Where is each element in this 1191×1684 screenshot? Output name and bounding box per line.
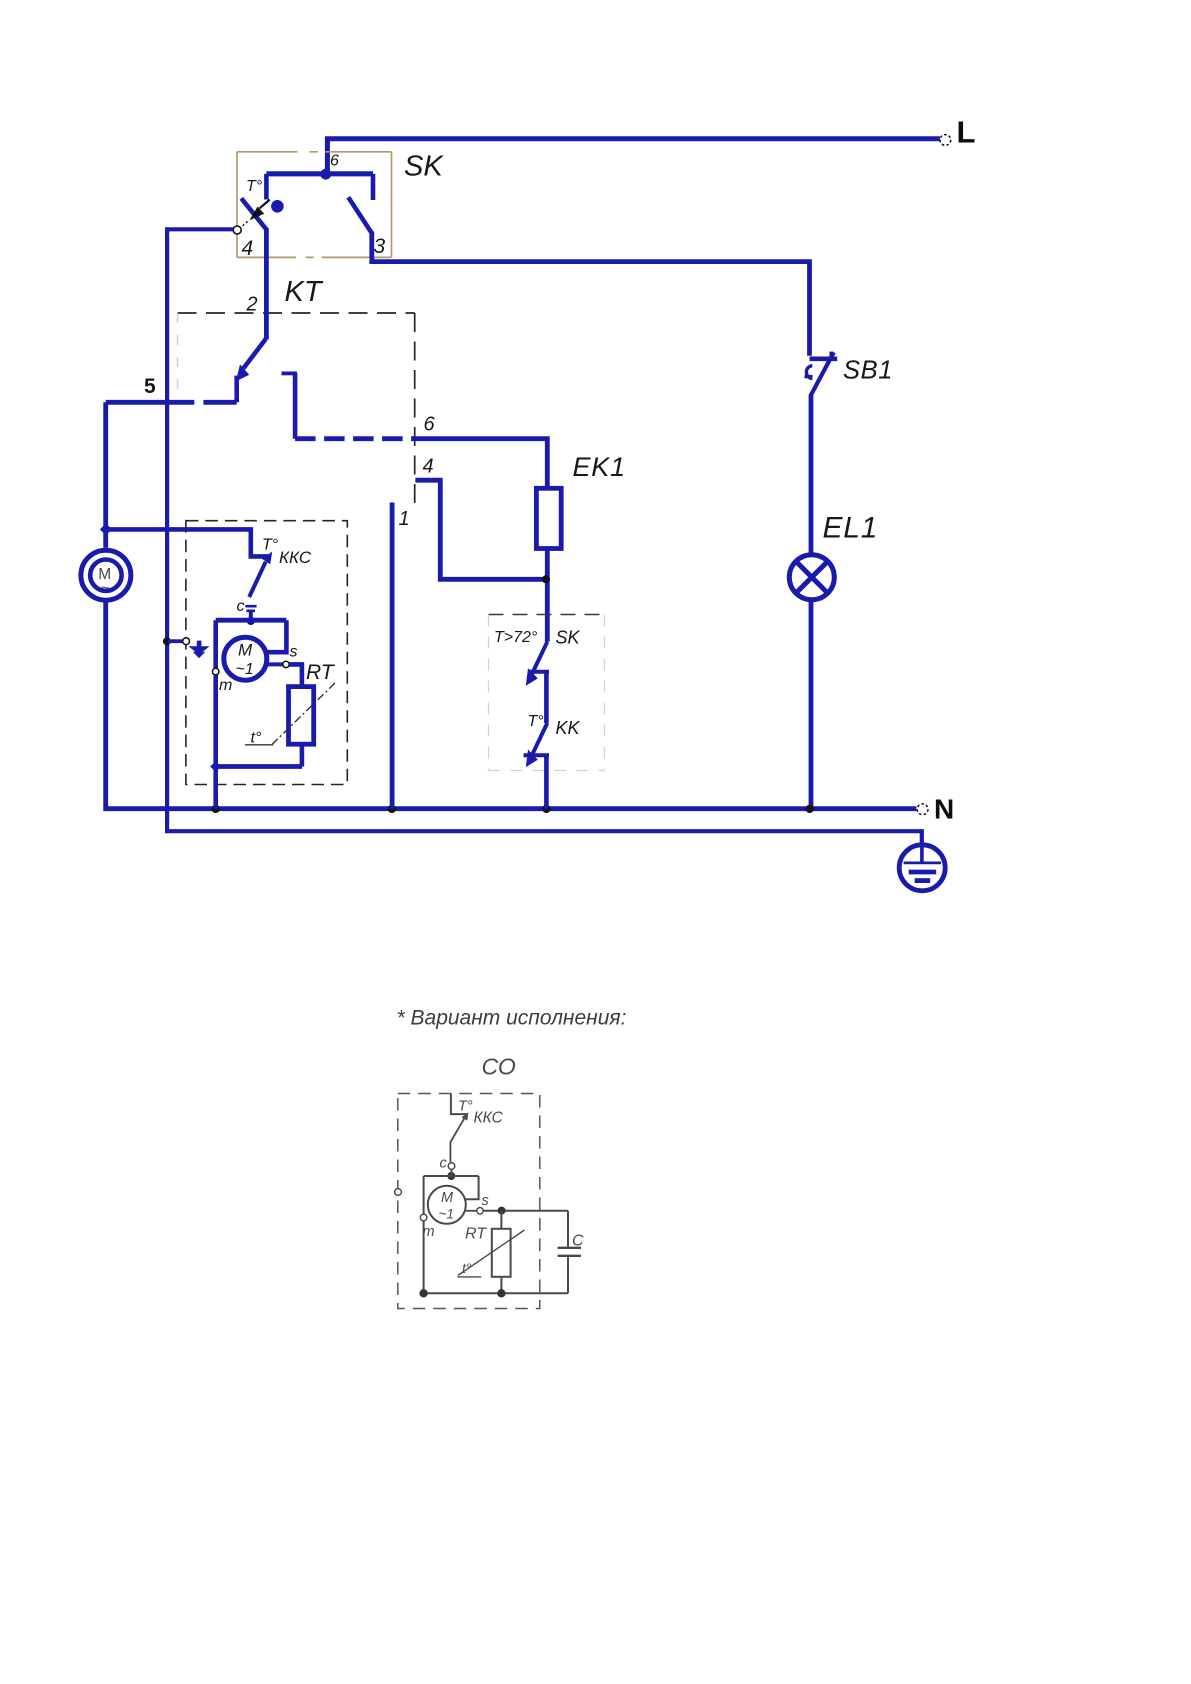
wire rail to N	[213, 767, 218, 809]
contact c circle (CO)	[448, 1163, 455, 1170]
svg-text:T°: T°	[528, 713, 545, 730]
junction c	[247, 617, 255, 625]
pin 4 terminal circle of SK	[233, 226, 241, 234]
wire s to RT	[289, 664, 302, 686]
SK left fixed contact T deg	[264, 174, 269, 200]
junction bottom RT (CO)	[497, 1289, 505, 1297]
motor M ~1	[224, 637, 267, 680]
contact c ticks	[245, 606, 256, 611]
wire 6 dashed	[295, 436, 416, 441]
contact s circle	[283, 661, 289, 667]
junction dots on N line	[212, 805, 814, 813]
svg-text:SK: SK	[404, 151, 444, 183]
svg-text:ККС: ККС	[279, 548, 312, 567]
wire to KKC contact	[106, 529, 270, 556]
wire EL1 to N line	[809, 600, 814, 809]
terminal L	[940, 115, 975, 150]
capacitor C (CO)	[558, 1211, 581, 1294]
SK contact dot	[271, 200, 284, 213]
KKC contact blade with arrow	[249, 552, 272, 597]
KKC wire top (CO)	[451, 1094, 467, 1115]
motor unit dashed box	[186, 521, 347, 785]
wire L top line	[327, 139, 940, 174]
svg-text:5: 5	[144, 375, 156, 398]
svg-text:EK1: EK1	[573, 452, 626, 482]
KT contact blade	[236, 339, 266, 382]
junction bottom rail	[210, 761, 221, 772]
svg-text:s: s	[290, 644, 298, 661]
variant CO dashed box	[398, 1094, 540, 1309]
defrost unit dashed box	[489, 615, 605, 771]
pin circle on CO box	[395, 1189, 402, 1196]
left rail lower part	[213, 675, 218, 767]
left rail (CO)	[423, 1176, 425, 1214]
junction EK1 bottom	[542, 575, 550, 583]
wire s to capacitor (CO)	[483, 1210, 568, 1212]
wire SK pin3 to SB1	[372, 232, 810, 356]
wire 6 to EK1	[414, 439, 547, 489]
svg-text:1: 1	[399, 508, 410, 530]
wire SK pin4 down to KT pin2	[264, 229, 269, 340]
resistor RT (CO)	[492, 1229, 511, 1277]
thermostat actuator arrow (black)	[240, 200, 270, 229]
thermistor slash	[272, 682, 337, 745]
svg-text:* Вариант исполнения:: * Вариант исполнения:	[397, 1007, 627, 1030]
svg-text:c: c	[237, 598, 245, 615]
bottom rail (CO)	[424, 1292, 568, 1294]
svg-text:SK: SK	[556, 628, 581, 648]
svg-text:4: 4	[423, 456, 434, 478]
svg-text:RT: RT	[465, 1226, 487, 1243]
motor top rail (CO)	[424, 1175, 479, 1177]
wire 1 to N	[390, 503, 395, 809]
svg-text:s: s	[482, 1193, 489, 1209]
wire EK1 down	[545, 549, 550, 642]
svg-text:EL1: EL1	[823, 512, 879, 545]
wire motor to s (CO)	[466, 1210, 477, 1212]
wire down to RT (CO)	[500, 1211, 502, 1229]
svg-text:~1: ~1	[236, 661, 254, 678]
svg-text:L: L	[957, 115, 976, 150]
left rail to m contact	[213, 620, 218, 668]
tick contact 1	[528, 670, 549, 674]
timer KT dashed box	[178, 313, 415, 503]
wire 4 to EK1 bottom	[415, 480, 545, 579]
motor bottom rail	[216, 764, 302, 769]
KT pin6 fixed tick	[282, 371, 298, 375]
wire 5 left vertical to motor	[103, 402, 108, 548]
junction s RT (CO)	[498, 1207, 506, 1215]
relay actuator arrow	[188, 641, 209, 659]
svg-text:~: ~	[101, 580, 110, 597]
svg-text:t°: t°	[462, 1260, 472, 1276]
wire 5 (dashed segment)	[106, 400, 237, 405]
heater EK1	[536, 488, 561, 548]
ground symbol	[899, 845, 945, 891]
svg-text:T°: T°	[246, 178, 263, 195]
tick contact 2	[524, 753, 550, 757]
svg-text:~1: ~1	[439, 1207, 454, 1222]
wire RT to bottom rail (CO)	[500, 1277, 502, 1294]
svg-text:RT: RT	[306, 661, 336, 684]
svg-text:T°: T°	[458, 1099, 473, 1115]
svg-text:6: 6	[330, 153, 339, 170]
wire SB1 to lamp EL1	[809, 396, 814, 555]
switch SB1	[805, 352, 838, 397]
wire KK to N	[544, 755, 549, 809]
right rail to s contact	[266, 620, 286, 652]
svg-text:T°: T°	[262, 537, 279, 554]
wire blade to c (CO)	[449, 1143, 451, 1163]
thermal switch KK blade	[526, 723, 548, 767]
wire motor to s contact	[266, 662, 283, 666]
wire SK pin4 to ground rail (long left vertical)	[167, 229, 922, 845]
SK right fixed contact	[371, 174, 376, 200]
KT fixed contact 5 stub	[234, 376, 239, 403]
svg-text:6: 6	[424, 414, 436, 436]
svg-text:СО: СО	[482, 1054, 516, 1080]
svg-text:M: M	[238, 641, 253, 660]
label t deg underlined	[245, 730, 273, 747]
left rail lower (CO)	[423, 1221, 425, 1293]
label t deg underlined (CO)	[458, 1260, 482, 1277]
junction motor node	[100, 523, 112, 535]
svg-text:t°: t°	[251, 730, 262, 747]
contact m circle	[212, 668, 219, 675]
contact s circle (CO)	[477, 1208, 483, 1214]
wire RT to bottom rail	[300, 744, 305, 766]
compressor motor M	[81, 550, 131, 600]
svg-text:SB1: SB1	[843, 357, 893, 385]
wire KT pin6 down	[293, 373, 298, 438]
junction SK pin6	[320, 169, 331, 180]
wire relay pin	[168, 639, 183, 643]
relay pin circle	[183, 638, 190, 645]
motor top rail	[216, 618, 287, 623]
svg-text:M: M	[441, 1190, 454, 1206]
svg-text:KK: KK	[556, 718, 581, 738]
svg-text:T>72°: T>72°	[494, 629, 538, 646]
junction protective relay	[163, 637, 171, 645]
svg-text:3: 3	[374, 235, 386, 258]
wire motor M to N line	[106, 600, 917, 809]
wire c down (CO)	[451, 1169, 453, 1176]
terminal N	[917, 794, 954, 825]
junction c (CO)	[447, 1172, 455, 1180]
lamp EL1	[789, 555, 834, 600]
svg-text:KT: KT	[285, 276, 324, 308]
right rail (CO)	[466, 1176, 479, 1199]
resistor RT	[289, 687, 314, 745]
svg-text:C: C	[572, 1233, 584, 1250]
contact m circle (CO)	[420, 1214, 427, 1221]
svg-text:ККС: ККС	[474, 1110, 504, 1127]
thermistor slash (CO)	[458, 1230, 525, 1276]
svg-text:m: m	[219, 677, 232, 694]
wire c to motor rail	[249, 611, 253, 620]
thermostat SK box	[237, 152, 392, 258]
SK left contact blade	[241, 198, 267, 230]
thermal switch SK blade	[526, 642, 548, 686]
svg-text:c: c	[440, 1156, 448, 1172]
junction bottom left (CO)	[419, 1289, 427, 1297]
SK right contact blade	[348, 197, 371, 233]
svg-text:4: 4	[242, 237, 254, 260]
svg-text:N: N	[934, 794, 954, 825]
motor M ~1 (CO)	[428, 1186, 466, 1224]
KKC blade (CO)	[450, 1112, 468, 1142]
wire between contacts	[544, 672, 549, 723]
wire SK top rail	[266, 171, 373, 176]
